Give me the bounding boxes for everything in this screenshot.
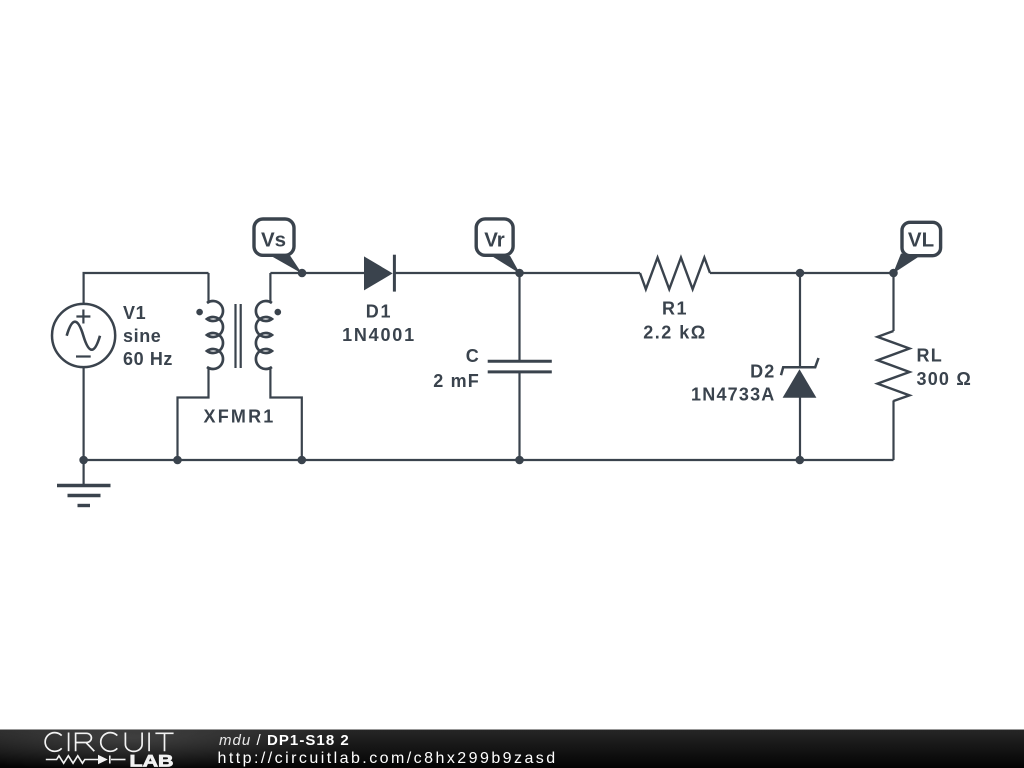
voltage source V1 — [52, 304, 115, 367]
label R1 value — [643, 299, 706, 343]
svg-text:RL: RL — [917, 345, 943, 365]
footer url — [218, 750, 558, 768]
label RL value — [917, 345, 972, 389]
junction node Vs — [298, 269, 307, 278]
footer bar — [0, 729, 1024, 768]
svg-text:Vr: Vr — [484, 229, 505, 252]
wire top rail R1 to VL node — [710, 272, 894, 274]
transformer XFMR1 — [196, 301, 281, 369]
svg-text:2.2 kΩ: 2.2 kΩ — [643, 323, 706, 343]
junction ground secondary — [298, 456, 307, 465]
wire V1 bottom to ground — [82, 367, 84, 485]
wire V1 top to rail — [84, 273, 209, 304]
wire top rail secondary to D1 — [270, 272, 364, 274]
svg-text:60 Hz: 60 Hz — [123, 349, 173, 369]
footer title — [219, 732, 350, 749]
junction node D2 top — [796, 269, 805, 278]
wire secondary top vertical — [269, 273, 271, 303]
svg-text:D2: D2 — [750, 361, 775, 381]
diode D1 — [364, 255, 394, 292]
wire D2 bottom — [799, 398, 801, 461]
node flag Vs — [254, 219, 302, 274]
svg-text:R1: R1 — [662, 299, 688, 319]
junction ground primary — [173, 456, 182, 465]
svg-text:2 mF: 2 mF — [433, 371, 480, 391]
junction node Vr — [515, 269, 524, 278]
svg-text:V1: V1 — [123, 303, 146, 323]
svg-text:VL: VL — [908, 229, 934, 252]
svg-text:1N4733A: 1N4733A — [691, 384, 775, 404]
wire D2 top — [799, 273, 801, 367]
node flag VL — [893, 222, 941, 273]
junction node VL — [889, 269, 898, 278]
zener diode D2 — [781, 358, 819, 398]
label V1 value — [123, 303, 173, 369]
svg-text:C: C — [466, 346, 480, 366]
label D2 value — [691, 361, 775, 404]
svg-text:D1: D1 — [366, 302, 393, 322]
capacitor C — [488, 361, 552, 372]
svg-text:Vs: Vs — [261, 229, 286, 252]
ground — [57, 486, 111, 506]
wire top rail D1 to R1 — [396, 272, 641, 274]
wire capacitor to ground rail — [518, 372, 520, 460]
node flag Vr — [476, 219, 520, 274]
svg-text:LAB: LAB — [130, 752, 174, 768]
CircuitLab logo — [0, 725, 200, 768]
wire Vr node down to capacitor — [518, 273, 520, 361]
wire secondary bottom to ground rail — [270, 368, 301, 461]
label D1 value — [342, 302, 416, 346]
wire bottom ground rail — [84, 459, 894, 461]
wire RL bottom — [892, 401, 894, 461]
wire VL node down to RL — [892, 273, 894, 331]
svg-text:300 Ω: 300 Ω — [917, 369, 972, 389]
junction ground V1 — [79, 456, 88, 465]
resistor RL — [878, 331, 910, 401]
svg-text:1N4001: 1N4001 — [342, 325, 416, 345]
wire primary bottom to ground rail — [178, 368, 209, 461]
label C value — [433, 346, 480, 391]
junction ground D2 — [796, 456, 805, 465]
svg-text:XFMR1: XFMR1 — [203, 407, 275, 427]
junction ground capacitor — [515, 456, 524, 465]
resistor R1 — [640, 258, 710, 290]
svg-text:sine: sine — [123, 326, 161, 346]
wire primary top vertical — [207, 273, 209, 303]
